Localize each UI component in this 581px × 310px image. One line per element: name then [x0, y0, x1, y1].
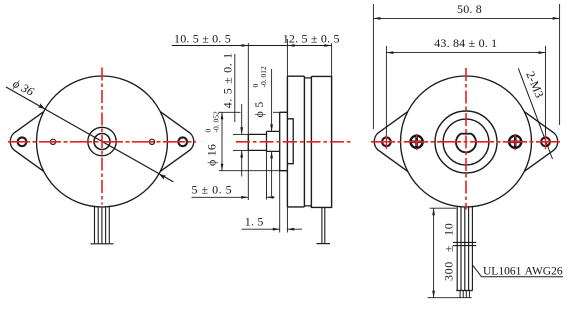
- centerline left screw back view: [416, 134, 418, 150]
- label phi5 with tolerance: [251, 66, 268, 117]
- left ear hole: [18, 137, 27, 146]
- boss circle front view: [88, 127, 116, 155]
- svg-text:ϕ 16: ϕ 16: [205, 144, 219, 166]
- centerline horizontal side view: [236, 141, 352, 143]
- arrow 4.5 lower: [240, 151, 243, 158]
- dimension 300±10: [428, 208, 472, 298]
- svg-text:ϕ 5: ϕ 5: [252, 102, 266, 118]
- neck between flange and body: [304, 78, 311, 206]
- phi36 arrowhead upper: [38, 103, 47, 111]
- dimension 50.8: [373, 4, 559, 129]
- svg-text:1. 5: 1. 5: [245, 215, 264, 229]
- dimension 1.5: [242, 228, 303, 230]
- right mounting ear: [160, 112, 193, 172]
- shaft circle front view: [94, 134, 110, 150]
- arrow 300 top: [432, 208, 435, 215]
- extension 50.8 left: [372, 4, 374, 129]
- right ear hole back view: [541, 137, 550, 146]
- svg-text:UL1061 AWG26: UL1061 AWG26: [483, 266, 563, 278]
- arrow phi5 upper: [270, 124, 273, 131]
- right screw head: [508, 135, 523, 150]
- extension line shaft flat end: [266, 131, 268, 199]
- centerline vertical back view: [465, 68, 467, 210]
- svg-text:-0. 012: -0. 012: [259, 66, 268, 87]
- svg-text:10. 5 ± 0. 5: 10. 5 ± 0. 5: [174, 32, 231, 46]
- left pilot hole: [50, 139, 55, 144]
- svg-text:4. 5 ± 0. 1: 4. 5 ± 0. 1: [221, 52, 235, 108]
- extension line body back: [331, 43, 333, 76]
- label phi16 with tolerance: [203, 111, 220, 166]
- motor body circle back view: [401, 76, 532, 207]
- extension line flange front below: [286, 207, 288, 233]
- svg-text:300 ± 10: 300 ± 10: [442, 223, 456, 281]
- arrow 12.5 right: [324, 44, 331, 47]
- arrow 43.84 right: [539, 51, 546, 54]
- left mounting ear back view: [374, 112, 407, 172]
- arrow 43.84 left: [386, 51, 393, 54]
- extension 4.5 top: [233, 133, 248, 135]
- svg-text:43. 84 ± 0. 1: 43. 84 ± 0. 1: [434, 36, 497, 50]
- centerline right ear hole back view: [545, 135, 547, 149]
- right mounting ear back view: [524, 112, 557, 172]
- dimension phi16 vertical: [219, 112, 287, 170]
- arrow 5 right: [267, 196, 274, 199]
- boss side view: [280, 112, 288, 170]
- shaft full section: [267, 131, 280, 151]
- 2-M3 leader line: [518, 68, 552, 159]
- lead wire side view: [317, 207, 331, 243]
- svg-text:5 ± 0. 5: 5 ± 0. 5: [192, 183, 233, 197]
- shaft flat section: [248, 134, 266, 150]
- motor can body side view: [311, 76, 331, 207]
- dimension 4.5 vertical: [233, 54, 248, 177]
- arrow 1.5 left: [273, 228, 280, 231]
- shaft end with flat back view: [456, 134, 476, 153]
- extension phi16 top left seg: [219, 111, 241, 113]
- extension 43.84 right: [545, 46, 547, 136]
- extension line flange front above: [286, 39, 288, 76]
- left mounting ear: [10, 112, 43, 172]
- arrow 1.5 right: [287, 228, 294, 231]
- extension line shaft tip: [247, 43, 249, 200]
- wire end cap front view: [91, 243, 114, 245]
- outer ring back view: [435, 111, 497, 173]
- extension phi16 top right seg: [273, 111, 287, 113]
- svg-text:50. 8: 50. 8: [457, 2, 482, 16]
- arrow 300 bottom: [432, 291, 435, 298]
- arrow phi16 upper: [221, 112, 224, 119]
- wire end cap side view: [317, 243, 331, 245]
- centerline left ear hole back view: [385, 135, 387, 149]
- text underline 4.5: [234, 54, 236, 122]
- dimension 5±0.5: [192, 196, 275, 198]
- svg-text:12. 5 ± 0. 5: 12. 5 ± 0. 5: [283, 32, 340, 46]
- centerline vertical front view: [101, 68, 103, 205]
- right pilot hole: [149, 139, 154, 144]
- flange plate side view: [287, 76, 304, 207]
- phi36 diameter leader line: [6, 87, 173, 182]
- arrow 4.5 upper: [240, 127, 243, 134]
- arrow 5 left: [241, 196, 248, 199]
- centerline horizontal front view: [8, 141, 196, 143]
- pilot step on flange: [287, 119, 293, 164]
- lead wires front view: [91, 206, 114, 244]
- arrow 50.8 right: [553, 17, 560, 20]
- dimension phi5 vertical: [271, 69, 273, 196]
- phi36 arrowhead lower: [158, 172, 167, 180]
- exposed wires: [459, 291, 461, 298]
- jacket end line: [456, 290, 472, 292]
- left ear hole back view: [382, 137, 391, 146]
- centerline right screw back view: [514, 134, 516, 150]
- arrow phi5 lower: [270, 151, 273, 158]
- arrow 10.5 left: [242, 44, 249, 47]
- cable tie band: [453, 241, 477, 243]
- svg-text:-0. 052: -0. 052: [212, 111, 221, 132]
- extension 50.8 right: [559, 4, 561, 125]
- extension line boss face below: [279, 171, 281, 233]
- extension phi16 bottom: [219, 170, 287, 172]
- UL1061 leader: [473, 265, 563, 277]
- extension 43.84 left: [385, 46, 387, 136]
- centerline horizontal back view: [371, 141, 561, 143]
- left screw head: [409, 135, 424, 150]
- motor body circle front view: [37, 76, 168, 207]
- dimension 10.5/12.5 shared line: [172, 39, 332, 233]
- middle ring back view: [443, 119, 489, 165]
- arrow phi16 lower: [221, 164, 224, 171]
- arrow 50.8 left: [373, 17, 380, 20]
- lead wire bundle back view: [453, 206, 477, 298]
- arrow 12.5 left: [288, 44, 295, 47]
- right ear hole: [178, 137, 187, 146]
- extension 4.5 bottom: [233, 149, 248, 151]
- extension 300 bottom / wire end line: [428, 297, 472, 299]
- dimension 43.84: [386, 46, 545, 136]
- extension 300 top: [430, 207, 457, 209]
